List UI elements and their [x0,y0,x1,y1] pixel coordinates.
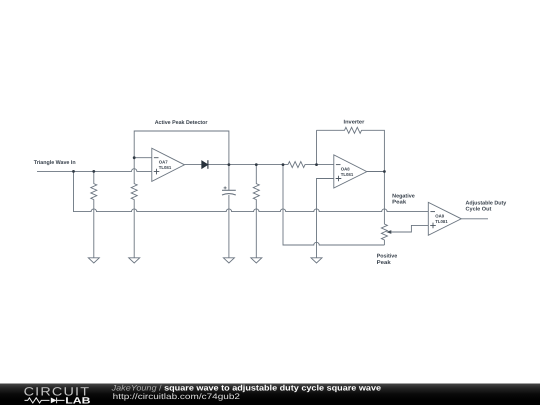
wire: inverter feedback top with resistor R5 [317,127,385,171]
svg-text:OA8: OA8 [341,166,350,171]
wire: diode to inverter input resistor with node taps [208,164,288,166]
OA7 minus [154,157,159,159]
wire: OA8 output [367,171,385,173]
svg-text:TL081: TL081 [159,165,172,170]
footer bar [0,384,540,405]
ground under R2 [129,258,140,263]
capacitor C1 top lead [228,165,230,191]
svg-text:Peak: Peak [377,260,391,266]
pot wiper arrow [386,230,391,234]
OA7 plus [154,169,160,175]
OA9 plus [430,223,436,229]
node: OA8 output / negative peak [383,170,386,173]
resistor R2 at x=134.2 [131,158,137,258]
footer logo diode [51,398,57,404]
node: positive peak tap [282,163,285,166]
resistor R4 inverter input zigzag [288,162,334,168]
capacitor C1 polarity plus [224,186,227,189]
op-amp input polarity marks [154,158,436,229]
wire: OA8 non-inverting input to ground [317,179,334,258]
capacitor C1 bottom lead [228,195,230,258]
OA8 plus [336,176,342,182]
diode D1 [202,160,208,169]
wire: OA7 inverting input [134,157,152,159]
wire: OA9 output [461,218,488,220]
OA9 minus [430,211,435,213]
svg-text:Active Peak Detector: Active Peak Detector [155,120,209,126]
svg-text:Inverter: Inverter [344,120,366,126]
ground under OA8 + input [311,258,322,263]
node: OA8 inverting input [315,163,318,166]
wire: inverter feedback left vertical [316,130,318,164]
svg-text:Peak: Peak [392,200,406,206]
svg-text:OA7: OA7 [159,160,168,165]
wire: OA7 feedback loop top [134,131,229,165]
op-amp U3 OA9 triangle [428,202,461,235]
node: peak detector feedback tap [228,163,231,166]
OA8 minus [336,164,341,166]
wire: pot wiper to OA9 non-inverting input [390,225,428,232]
capacitor C1 plates [222,189,236,191]
svg-text:LAB: LAB [65,395,91,405]
resistor R1 at x=93.8 [91,171,97,257]
svg-text:Adjustable Duty: Adjustable Duty [466,201,507,207]
junction dots [72,156,386,173]
wire: OA7 output to diode [185,164,203,166]
svg-text:OA9: OA9 [435,214,444,219]
footer logo resistor squiggle [25,398,50,403]
node: R3 tap [255,163,258,166]
resistor R3 at x=256.3 [253,165,259,258]
svg-text:TL081: TL081 [341,172,354,177]
wire: triangle wave input, hop over feedback vertical [37,169,152,172]
node: input tap to rail [72,170,75,173]
svg-text:Negative: Negative [392,193,415,199]
ground under C1 [223,258,234,263]
ground under R3 [251,258,262,263]
ground under R1 [88,258,99,263]
svg-text:Triangle Wave In: Triangle Wave In [34,160,76,166]
svg-text:Positive: Positive [377,254,398,260]
node: OA7 inverting input [133,156,136,159]
op-amp U1 OA7 triangle [152,148,185,181]
svg-text:http://circuitlab.com/c74gub2: http://circuitlab.com/c74gub2 [113,392,241,401]
potentiometer P1 leads and zigzag [381,172,387,246]
op-amp U2 OA8 triangle [334,155,367,188]
wire: positive peak rail down and right to pot bottom, hop at x=316.5 [283,165,384,245]
svg-text:Cycle Out: Cycle Out [466,207,492,213]
svg-text:TL081: TL081 [435,219,448,224]
wire: long rail from input node to OA9 inverting input with hops [74,171,429,211]
node: input tap to R1 [92,170,95,173]
